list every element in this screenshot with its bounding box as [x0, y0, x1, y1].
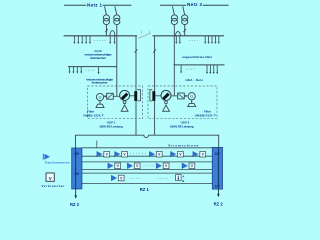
svg-text:RZ 2: RZ 2 — [214, 202, 224, 207]
load arrows on second bus — [69, 67, 83, 74]
converter/rectifier box (USV 1) — [107, 93, 114, 99]
net line Netz 2 — [160, 4, 229, 6]
wire transformer N1T1 to bus — [105, 25, 108, 36]
wire converter to motor — [113, 95, 119, 97]
svg-text:A: A — [182, 175, 184, 179]
svg-text:Verbraucher: Verbraucher — [92, 81, 109, 85]
wire through left bar to RZ 2 — [74, 148, 77, 199]
changeover box with arrow and A/B labels — [176, 175, 185, 183]
busbar tap-off unit (transformer+consumer) — [108, 163, 121, 169]
switch bus tie (open) — [138, 31, 151, 39]
svg-text:RZ 1: RZ 1 — [140, 187, 150, 192]
wire motor to battery — [130, 95, 135, 97]
wire motor to converter — [171, 95, 178, 97]
wire feed bus to battery USV 2 — [153, 36, 156, 135]
legend transformer symbol — [43, 154, 50, 160]
ellipsis dots — [86, 69, 95, 72]
rail Stromschiene lines — [82, 148, 212, 156]
wire USV outputs to distribution bars (with crossover hop) — [76, 135, 219, 148]
bus main low-voltage busbar right section — [153, 35, 224, 37]
wire bypass from N1T2 down to USV 1 — [116, 25, 118, 97]
svg-text:100% RZ-Leistung: 100% RZ-Leistung — [170, 125, 194, 129]
wire transformer N2T2 to bus — [183, 25, 186, 36]
battery (USV 2) — [150, 90, 155, 101]
svg-text:Transformatoren: Transformatoren — [45, 161, 70, 165]
svg-text:ungeschütztes Netz: ungeschütztes Netz — [182, 55, 213, 59]
busbar tap-off unit (transformer+consumer) — [111, 175, 124, 181]
busbar tap-off unit (transformer+consumer) — [127, 163, 140, 169]
wire with arrow G to converter — [104, 95, 107, 97]
transformer T at x=184.7 — [182, 6, 188, 24]
svg-text:RZ 2: RZ 2 — [70, 202, 80, 207]
label netzstromberechtigte Verbraucher — [86, 77, 113, 84]
svg-text:Stromschiene: Stromschiene — [168, 144, 198, 148]
enclosure USV 2 (dashed) — [148, 86, 217, 119]
enclosure USV 1 (dashed) — [88, 86, 143, 119]
svg-text:HEA - Netz: HEA - Netz — [186, 78, 204, 82]
busbar tap-off unit (transformer+consumer) — [115, 151, 128, 157]
load arrows pair with changeover arc near transformer N1 — [109, 31, 115, 44]
battery (USV 1) — [134, 90, 140, 101]
svg-text:V: V — [49, 176, 52, 181]
motor M (USV 1) — [120, 90, 130, 111]
wire battery to motor — [155, 95, 161, 97]
load arrows group on HEA bus — [206, 65, 218, 74]
transformer T at x=174.4 — [171, 6, 177, 24]
transformer T at x=106.4 — [103, 6, 109, 24]
busbar cabinet UV left (RZ 2 feed) — [72, 148, 82, 189]
label Filter LNBB-CDX-T (USV 1) — [83, 110, 104, 118]
label Netz 2 — [186, 1, 203, 7]
ellipsis dots — [189, 39, 198, 42]
label nicht netzstromberechtigte Verbraucher — [85, 49, 112, 60]
svg-text:G: G — [98, 95, 101, 100]
svg-text:UV: UV — [215, 152, 220, 156]
wire feed bus to battery USV 1 — [135, 36, 138, 135]
bus netzstromberechtigte Verbraucher — [68, 66, 117, 68]
busbar cabinet UV right (RZ 2 feed) — [212, 147, 222, 189]
label USV 1 100% RZ-Leistung — [99, 120, 123, 128]
wire through right bar to RZ 2 — [217, 147, 220, 197]
motor M (USV 2) — [161, 90, 171, 111]
ellipsis dots — [144, 164, 154, 167]
transformer T at x=116.8 — [114, 6, 120, 24]
net line Netz 1 — [64, 4, 132, 6]
rail Stromschiene lines — [82, 173, 212, 183]
busbar tap-off unit (transformer+consumer) — [149, 151, 162, 157]
legend consumer box V — [46, 173, 54, 181]
load arrows group far right — [204, 36, 220, 44]
svg-text:Netz 1: Netz 1 — [87, 2, 102, 7]
svg-text:G: G — [190, 94, 193, 99]
load arrow on HEA bus — [180, 65, 182, 74]
load arrow on second bus — [98, 67, 100, 75]
svg-text:Verbraucher: Verbraucher — [42, 184, 66, 188]
load arrows pair with changeover arc near transformer N2 — [175, 32, 181, 44]
ellipsis dots — [94, 39, 105, 42]
label Netz 1 — [86, 2, 103, 8]
svg-text:UV: UV — [215, 184, 220, 188]
wire stub feed — [96, 141, 98, 148]
svg-text:UMBB-CDX-T: UMBB-CDX-T — [83, 114, 104, 118]
busbar tap-off unit (transformer+consumer) — [171, 151, 184, 157]
label USV 2 100% RZ-Leistung — [170, 120, 194, 128]
ellipsis dots — [130, 152, 146, 155]
busbar tap-off unit (transformer+consumer) — [193, 151, 206, 157]
ellipsis dots — [186, 68, 195, 71]
busbar tap-off unit (transformer+consumer) — [182, 163, 195, 169]
svg-text:100% RZ-Leistung: 100% RZ-Leistung — [99, 125, 123, 129]
svg-text:Verbraucher: Verbraucher — [90, 56, 107, 60]
generator G (USV 1) — [96, 93, 104, 107]
bus main low-voltage busbar left section — [64, 35, 137, 37]
svg-text:Netz 2: Netz 2 — [187, 2, 202, 7]
svg-text:UNBB/GCK-T: UNBB/GCK-T — [195, 114, 216, 118]
svg-text:B: B — [182, 179, 184, 183]
converter/rectifier box (USV 2) — [178, 93, 185, 99]
rail Stromschiene lines — [82, 162, 212, 170]
wire with arrow G to converter (USV 2) — [184, 95, 188, 97]
bus HEA-Netz — [174, 64, 225, 66]
busbar tap-off unit (transformer+consumer) — [156, 163, 169, 169]
load arrows group left (nicht netzstromberechtigte Verbraucher) — [73, 36, 91, 44]
wire bypass from N2T1 down to USV 2 — [173, 25, 175, 96]
ellipsis dots — [131, 177, 168, 180]
generator G (USV 2) — [188, 93, 196, 107]
busbar tap-off unit (transformer+consumer) — [97, 151, 110, 157]
label Filter UNBB/GCK-T (USV 2) — [195, 110, 216, 118]
